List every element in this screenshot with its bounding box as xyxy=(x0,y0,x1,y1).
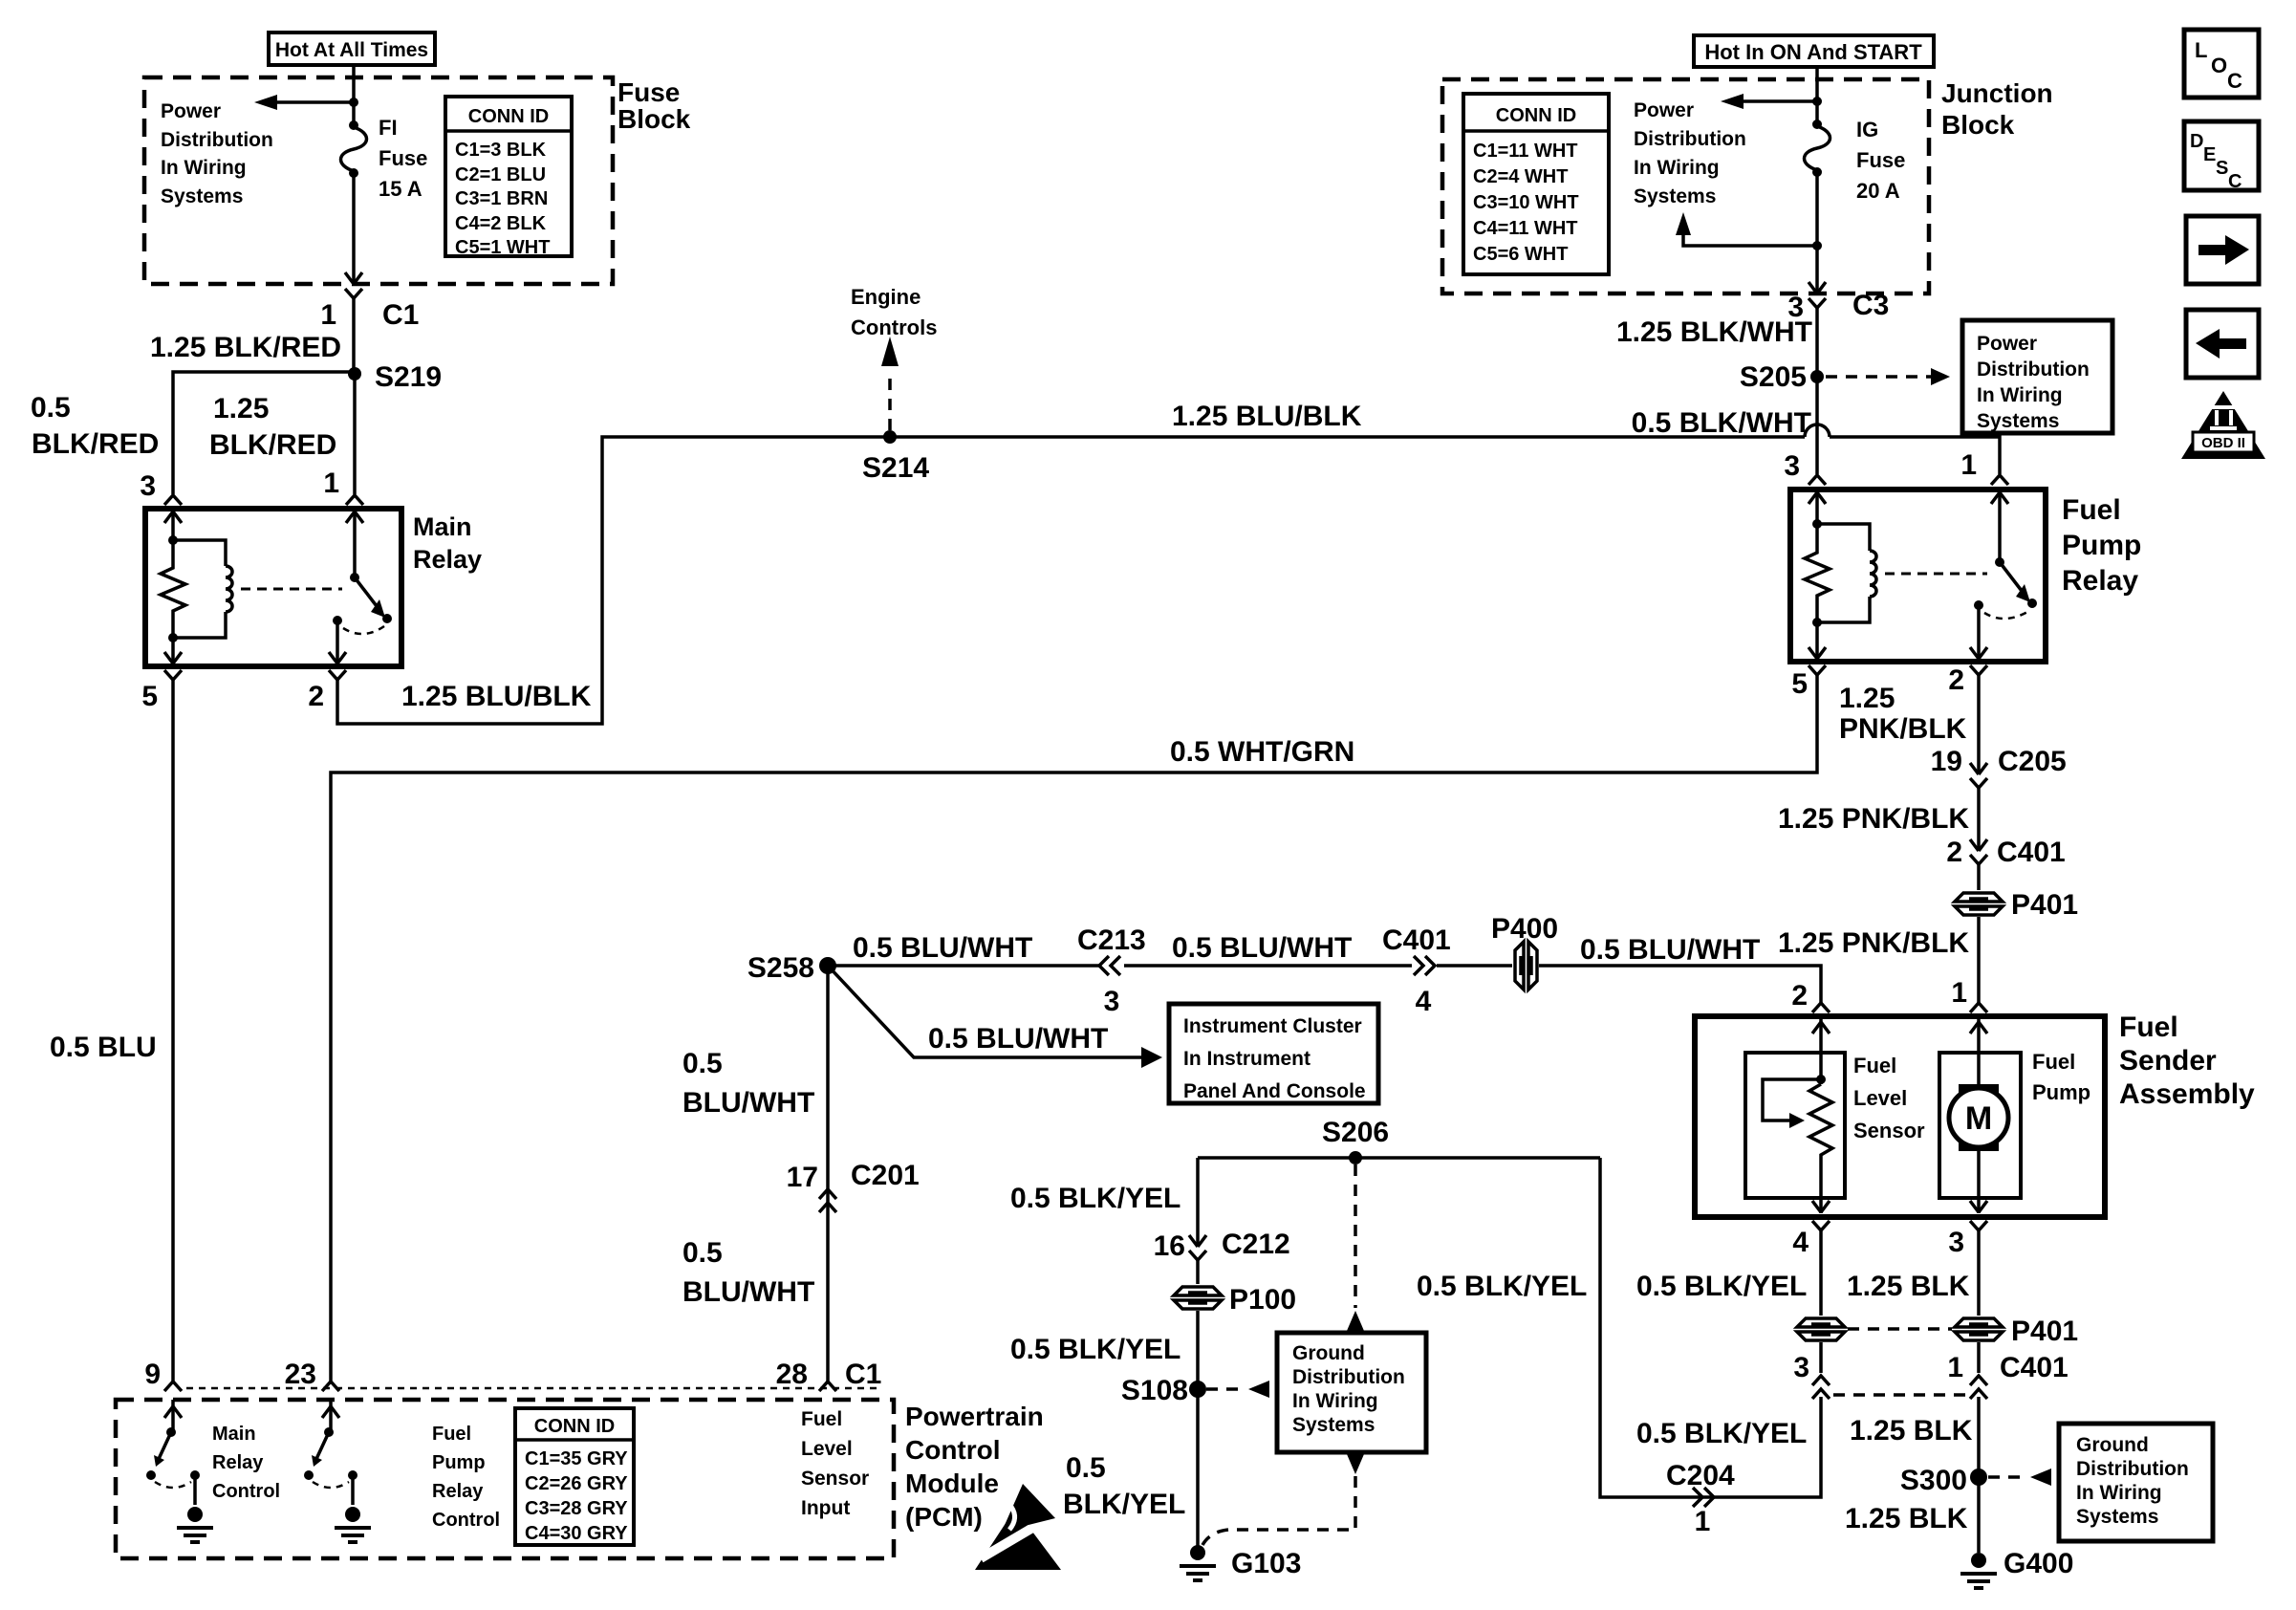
svg-text:Fuel: Fuel xyxy=(2119,1012,2178,1043)
svg-text:20 A: 20 A xyxy=(1856,179,1900,203)
connector C1 pin 1 (fuse block exit) xyxy=(320,272,419,331)
svg-text:28: 28 xyxy=(776,1359,808,1390)
svg-text:Distribution: Distribution xyxy=(161,129,273,151)
fuel sender assembly label xyxy=(2119,1012,2255,1110)
fuse IG 20 A xyxy=(1805,118,1906,203)
svg-text:Distribution: Distribution xyxy=(2076,1458,2189,1480)
svg-text:C401: C401 xyxy=(2000,1352,2069,1383)
node S214 xyxy=(862,430,929,484)
svg-text:0.5 BLK/YEL: 0.5 BLK/YEL xyxy=(1636,1418,1807,1449)
svg-text:Systems: Systems xyxy=(1634,185,1716,207)
svg-text:(PCM): (PCM) xyxy=(905,1502,983,1532)
legend DESC box xyxy=(2184,121,2259,192)
PCM label xyxy=(905,1402,1044,1532)
fuel pump relay coil xyxy=(1817,524,1876,622)
wire xyxy=(352,65,356,124)
svg-text:BLK/RED: BLK/RED xyxy=(209,429,336,461)
svg-text:1.25 BLK: 1.25 BLK xyxy=(1850,1415,1973,1447)
svg-text:0.5 BLK/YEL: 0.5 BLK/YEL xyxy=(1010,1334,1180,1365)
svg-text:In Instrument: In Instrument xyxy=(1183,1048,1310,1070)
svg-text:C4=11 WHT: C4=11 WHT xyxy=(1473,218,1577,239)
fuel pump relay xyxy=(1790,490,2046,662)
svg-text:C205: C205 xyxy=(1998,746,2067,777)
svg-text:Block: Block xyxy=(617,104,691,134)
svg-text:S258: S258 xyxy=(747,952,814,984)
svg-text:0.5 WHT/GRN: 0.5 WHT/GRN xyxy=(1170,736,1354,768)
main relay pin 2 xyxy=(308,670,346,712)
svg-text:O: O xyxy=(2211,54,2227,77)
svg-text:OBD II: OBD II xyxy=(2201,435,2245,451)
svg-text:G103: G103 xyxy=(1231,1548,1301,1579)
connector C213 pin 3 xyxy=(1077,925,1146,1017)
svg-text:Main: Main xyxy=(212,1424,256,1445)
fuel pump relay resistor xyxy=(1805,524,1830,622)
ESD warning symbol xyxy=(975,1484,1061,1570)
power distribution reference box xyxy=(1962,320,2112,433)
svg-text:Powertrain: Powertrain xyxy=(905,1402,1044,1431)
svg-text:1.25 PNK/BLK: 1.25 PNK/BLK xyxy=(1778,927,1969,959)
fuel level sensor xyxy=(1745,1016,1845,1213)
main relay coil feed (pin 3 internal) xyxy=(164,509,182,545)
pass-through grommet P400 xyxy=(1491,913,1558,991)
svg-text:0.5: 0.5 xyxy=(31,392,71,424)
wire 0.5 BLK/RED (branch to pin 3) xyxy=(31,372,355,494)
svg-text:2: 2 xyxy=(1791,980,1808,1012)
svg-text:D: D xyxy=(2190,131,2203,152)
svg-text:1.25 PNK/BLK: 1.25 PNK/BLK xyxy=(1778,803,1969,835)
svg-text:1.25 BLU/BLK: 1.25 BLU/BLK xyxy=(401,681,592,712)
fuel pump relay switch xyxy=(1970,490,2037,660)
connector C401 pin 2 xyxy=(1946,837,2065,868)
connector C3 pin 3 (junction block exit) xyxy=(1787,282,1889,323)
svg-text:Instrument Cluster: Instrument Cluster xyxy=(1183,1015,1362,1037)
main relay coil bottom node xyxy=(164,633,182,664)
fuel sender pin 4 xyxy=(1792,1221,1830,1258)
svg-text:Ground: Ground xyxy=(1292,1342,1365,1364)
instrument cluster reference box xyxy=(1169,1004,1378,1103)
svg-text:0.5 BLU/WHT: 0.5 BLU/WHT xyxy=(928,1023,1108,1055)
node S258 xyxy=(747,952,836,984)
wire xyxy=(1196,1158,1200,1247)
svg-text:0.5 BLU/WHT: 0.5 BLU/WHT xyxy=(1580,934,1760,966)
svg-text:C212: C212 xyxy=(1222,1229,1290,1260)
fuel pump relay pin 3 xyxy=(1784,450,1826,485)
svg-text:P401: P401 xyxy=(2011,889,2078,921)
svg-text:C3=1 BRN: C3=1 BRN xyxy=(455,188,548,209)
svg-text:L: L xyxy=(2195,38,2207,62)
svg-text:C2=1 BLU: C2=1 BLU xyxy=(455,164,546,185)
svg-text:C4=2 BLK: C4=2 BLK xyxy=(455,213,547,234)
svg-text:C2=4 WHT: C2=4 WHT xyxy=(1473,166,1568,187)
connector table CONN ID (junction block) xyxy=(1463,94,1609,274)
svg-text:Relay: Relay xyxy=(413,545,482,574)
node S300 xyxy=(1900,1465,1987,1496)
wire xyxy=(1196,1260,1200,1382)
svg-text:In Wiring: In Wiring xyxy=(1634,157,1720,179)
wire xyxy=(1437,966,1821,1003)
svg-text:Sensor: Sensor xyxy=(801,1468,869,1490)
svg-text:5: 5 xyxy=(141,681,158,712)
main relay xyxy=(145,509,401,666)
svg-text:BLU/WHT: BLU/WHT xyxy=(682,1087,814,1119)
svg-text:Fuel: Fuel xyxy=(432,1424,471,1445)
svg-text:S205: S205 xyxy=(1740,361,1807,393)
svg-text:P400: P400 xyxy=(1491,913,1558,945)
svg-text:Systems: Systems xyxy=(2076,1506,2158,1528)
connector C401 pin 1 xyxy=(1947,1352,2068,1399)
fuel pump relay coil bottom node xyxy=(1809,618,1826,660)
connector C401 pin 3 xyxy=(1793,1352,1830,1399)
svg-text:Controls: Controls xyxy=(851,315,937,339)
junction block label xyxy=(1941,78,2053,140)
branch to instrument cluster xyxy=(828,966,1162,1068)
svg-text:C3: C3 xyxy=(1852,290,1889,321)
svg-text:1.25: 1.25 xyxy=(213,393,269,424)
node S206 xyxy=(1322,1117,1389,1164)
svg-text:17: 17 xyxy=(787,1162,818,1193)
svg-text:1: 1 xyxy=(323,468,339,499)
junction block (dashed) xyxy=(1442,79,1929,294)
svg-text:0.5 BLU/WHT: 0.5 BLU/WHT xyxy=(853,932,1032,964)
fuel pump relay actuation (dashed) xyxy=(1885,573,1987,576)
svg-text:Level: Level xyxy=(1853,1086,1907,1110)
svg-text:0.5 BLK/YEL: 0.5 BLK/YEL xyxy=(1636,1271,1807,1302)
wire 0.5 BLK/YEL (pin 4) xyxy=(1636,1230,1821,1373)
svg-text:1: 1 xyxy=(1960,449,1977,481)
power distribution note (fuse block) xyxy=(161,100,273,207)
arrow to power distribution xyxy=(254,95,354,110)
branch arrow up (junction block) xyxy=(1676,212,1822,250)
svg-text:C5=1 WHT: C5=1 WHT xyxy=(455,237,550,258)
svg-text:BLK/YEL: BLK/YEL xyxy=(1063,1489,1185,1520)
svg-text:1.25 BLK: 1.25 BLK xyxy=(1845,1503,1968,1534)
svg-text:1.25 BLU/BLK: 1.25 BLU/BLK xyxy=(1172,401,1362,432)
svg-text:G400: G400 xyxy=(2004,1548,2073,1579)
wire 1.25 BLK/RED (to pin 1) xyxy=(209,374,355,494)
svg-text:Fuel: Fuel xyxy=(2032,1050,2075,1074)
svg-text:Block: Block xyxy=(1941,110,2015,140)
svg-text:3: 3 xyxy=(1948,1227,1964,1258)
svg-text:S206: S206 xyxy=(1322,1117,1389,1148)
svg-text:CONN ID: CONN ID xyxy=(468,106,549,127)
powertrain control module (dashed box) xyxy=(116,1400,894,1558)
dashed link C401 halves xyxy=(1833,1393,1967,1397)
node junction feed xyxy=(1812,97,1822,106)
main relay coil xyxy=(173,540,232,638)
connector C401 pin 4 xyxy=(1382,925,1451,1017)
svg-text:In Wiring: In Wiring xyxy=(2076,1482,2162,1504)
svg-text:0.5: 0.5 xyxy=(1066,1452,1106,1484)
svg-text:Fuel: Fuel xyxy=(2062,494,2121,526)
legend right-arrow box xyxy=(2186,216,2259,284)
svg-text:CONN ID: CONN ID xyxy=(534,1416,615,1437)
svg-text:Systems: Systems xyxy=(1292,1414,1375,1436)
fuel sender pin 3 xyxy=(1948,1221,1987,1258)
svg-text:1.25: 1.25 xyxy=(1839,683,1895,714)
svg-text:0.5 BLK/YEL: 0.5 BLK/YEL xyxy=(1010,1183,1180,1214)
pass-through grommet P401 xyxy=(1953,889,2078,921)
svg-text:1.25 BLK: 1.25 BLK xyxy=(1847,1271,1970,1302)
pass-through grommet P100 xyxy=(1172,1284,1296,1316)
wire xyxy=(1815,67,1819,122)
svg-text:C3=28 GRY: C3=28 GRY xyxy=(525,1498,628,1519)
svg-text:C1: C1 xyxy=(382,299,419,331)
fuel sender assembly xyxy=(1695,1016,2105,1217)
fuel pump relay control switch (PCM) xyxy=(304,1400,371,1542)
svg-text:BLU/WHT: BLU/WHT xyxy=(682,1276,814,1308)
legend OBD II symbol xyxy=(2181,391,2265,459)
svg-text:Control: Control xyxy=(212,1481,280,1502)
svg-text:2: 2 xyxy=(1946,837,1962,868)
svg-text:Fuse: Fuse xyxy=(379,146,427,170)
wire 0.5 BLU/WHT xyxy=(1580,934,1760,966)
svg-text:Distribution: Distribution xyxy=(1977,359,2090,381)
svg-text:Fuse: Fuse xyxy=(617,77,680,107)
wire 1.25 PNK/BLK xyxy=(1839,675,1979,774)
svg-text:Module: Module xyxy=(905,1469,999,1498)
connector table CONN ID (fuse block) xyxy=(445,97,572,258)
fuel pump relay coil feed xyxy=(1809,490,1826,529)
svg-text:2: 2 xyxy=(308,681,324,712)
svg-text:3: 3 xyxy=(1104,986,1120,1017)
svg-text:Systems: Systems xyxy=(161,185,243,207)
svg-text:3: 3 xyxy=(140,470,156,502)
svg-text:Hot In ON And START: Hot In ON And START xyxy=(1704,40,1922,64)
svg-text:Control: Control xyxy=(432,1510,500,1531)
main relay actuation (dashed) xyxy=(241,588,342,591)
svg-text:23: 23 xyxy=(285,1359,316,1390)
wire xyxy=(352,173,356,284)
svg-text:Fuse: Fuse xyxy=(1856,148,1905,172)
ground G400 xyxy=(1960,1548,2073,1588)
main relay resistor xyxy=(161,540,185,638)
svg-text:C401: C401 xyxy=(1997,837,2066,868)
pass-through grommet P401 (pin 3) xyxy=(1953,1316,2078,1347)
wire 0.5 BLK/YEL (S206 horizontal) xyxy=(1010,1158,1600,1214)
svg-text:Junction: Junction xyxy=(1941,78,2053,108)
svg-text:C204: C204 xyxy=(1666,1460,1735,1491)
wire 0.5 BLK/YEL (S108 to G103) xyxy=(1063,1389,1198,1551)
fuel pump motor xyxy=(1939,1016,2021,1213)
wire 1.25 BLK (pin 3) xyxy=(1847,1230,1979,1373)
wire 1.25 PNK/BLK xyxy=(1778,927,1969,959)
svg-text:Power: Power xyxy=(161,100,221,122)
svg-text:1: 1 xyxy=(1947,1352,1963,1383)
svg-text:In Wiring: In Wiring xyxy=(1292,1390,1378,1412)
svg-text:Hot At All Times: Hot At All Times xyxy=(275,39,428,61)
wire 1.25 BLU/BLK xyxy=(337,401,2000,724)
svg-text:Main: Main xyxy=(413,512,472,541)
dashed link P401 halves xyxy=(1848,1327,1952,1331)
svg-text:0.5: 0.5 xyxy=(682,1048,723,1079)
connector C212 pin 16 xyxy=(1154,1229,1290,1262)
svg-text:C213: C213 xyxy=(1077,925,1146,956)
svg-text:C: C xyxy=(2228,171,2242,192)
main relay pin 5 xyxy=(141,670,182,712)
svg-text:1.25 BLK/RED: 1.25 BLK/RED xyxy=(150,332,341,363)
svg-text:Pump: Pump xyxy=(2032,1080,2090,1104)
svg-text:1.25 BLK/WHT: 1.25 BLK/WHT xyxy=(1616,316,1812,348)
fuel sender pin 1 xyxy=(1951,977,1987,1012)
svg-text:0.5 BLU: 0.5 BLU xyxy=(50,1032,157,1063)
node fuse feed junction xyxy=(349,98,358,107)
svg-text:In Wiring: In Wiring xyxy=(1977,384,2063,406)
main relay control label xyxy=(212,1424,280,1502)
ground G103 xyxy=(1180,1545,1301,1580)
svg-text:Pump: Pump xyxy=(2062,530,2141,561)
fuel sender pin 2 xyxy=(1791,980,1830,1012)
svg-text:C1=3 BLK: C1=3 BLK xyxy=(455,140,547,161)
svg-text:Input: Input xyxy=(801,1497,850,1519)
svg-text:0.5: 0.5 xyxy=(682,1237,723,1269)
fuse block label xyxy=(617,77,691,134)
svg-text:4: 4 xyxy=(1792,1227,1809,1258)
wire 1.25 BLK/WHT xyxy=(1616,308,1817,377)
wire 0.5 BLK/WHT xyxy=(1632,377,1817,474)
legend left-arrow box xyxy=(2186,310,2259,378)
label Hot In ON And START xyxy=(1694,35,1934,67)
svg-text:Systems: Systems xyxy=(1977,410,2059,432)
node S108 xyxy=(1121,1375,1206,1406)
PCM pin 28 xyxy=(776,1359,882,1391)
fuel pump relay label xyxy=(2062,494,2141,597)
svg-text:Sensor: Sensor xyxy=(1853,1119,1925,1142)
svg-text:Distribution: Distribution xyxy=(1292,1366,1405,1388)
power distribution note (junction block) xyxy=(1634,99,1746,207)
connector C205 pin 19 xyxy=(1931,746,2067,788)
svg-text:S: S xyxy=(2216,158,2228,179)
svg-text:C401: C401 xyxy=(1382,925,1451,956)
svg-text:9: 9 xyxy=(144,1359,161,1390)
svg-text:IG: IG xyxy=(1856,118,1878,141)
fuel pump relay pin 1 xyxy=(1960,449,2008,485)
engine controls reference (dashed arrow) xyxy=(851,285,937,430)
pass-through grommet P401 (pin 4) xyxy=(1795,1316,1847,1342)
svg-text:4: 4 xyxy=(1416,986,1432,1017)
svg-text:3: 3 xyxy=(1793,1352,1809,1383)
wire 0.5 WHT/GRN xyxy=(331,675,1817,1382)
svg-text:15 A: 15 A xyxy=(379,177,422,201)
svg-text:1: 1 xyxy=(320,299,336,331)
fuel pump relay pin 2 xyxy=(1948,664,1987,696)
ground distribution reference box (middle) xyxy=(1277,1333,1426,1452)
dashed link ground distribution box to G103 xyxy=(1202,1454,1364,1545)
node S205 xyxy=(1740,361,1824,393)
svg-text:P100: P100 xyxy=(1229,1284,1296,1316)
svg-text:Fuel: Fuel xyxy=(801,1408,842,1430)
label Hot At All Times xyxy=(269,33,435,65)
wire 1.25 BLK/RED xyxy=(150,298,354,374)
svg-text:C1=11 WHT: C1=11 WHT xyxy=(1473,141,1577,162)
node S219 xyxy=(348,361,442,393)
svg-text:Relay: Relay xyxy=(2062,565,2138,597)
svg-text:FI: FI xyxy=(379,116,398,140)
svg-text:C1=35 GRY: C1=35 GRY xyxy=(525,1448,628,1469)
svg-text:E: E xyxy=(2203,144,2216,165)
wire 0.5 BLU/WHT xyxy=(828,932,1099,966)
main relay pin 3 xyxy=(140,470,182,505)
svg-text:0.5 BLK/YEL: 0.5 BLK/YEL xyxy=(1417,1271,1587,1302)
svg-text:Assembly: Assembly xyxy=(2119,1078,2255,1110)
svg-text:Engine: Engine xyxy=(851,285,921,309)
svg-text:0.5 BLK/WHT: 0.5 BLK/WHT xyxy=(1632,407,1811,439)
svg-text:Ground: Ground xyxy=(2076,1434,2149,1456)
svg-text:1: 1 xyxy=(1695,1506,1711,1537)
ground distribution reference box (bottom right) xyxy=(2059,1424,2213,1541)
legend LOC box xyxy=(2184,30,2259,98)
svg-text:Power: Power xyxy=(1977,333,2037,355)
svg-text:5: 5 xyxy=(1791,668,1808,700)
svg-text:BLK/RED: BLK/RED xyxy=(32,428,159,460)
svg-text:Relay: Relay xyxy=(432,1481,484,1502)
svg-text:C3=10 WHT: C3=10 WHT xyxy=(1473,192,1579,213)
dashed reference arrow to power distribution xyxy=(1826,368,1950,385)
svg-text:Control: Control xyxy=(905,1435,1001,1465)
dashed link S206 to ground distribution box xyxy=(1347,1164,1364,1331)
svg-text:Distribution: Distribution xyxy=(1634,128,1746,150)
PCM pin 9 xyxy=(144,1359,182,1391)
PCM connector line C1 (dashed) xyxy=(186,1387,879,1390)
dashed reference arrow (S300 to ground distribution) xyxy=(1988,1469,2051,1486)
svg-text:Relay: Relay xyxy=(212,1452,264,1473)
svg-text:M: M xyxy=(1965,1100,1992,1137)
svg-text:Power: Power xyxy=(1634,99,1694,121)
svg-text:C4=30 GRY: C4=30 GRY xyxy=(525,1523,628,1544)
svg-text:S214: S214 xyxy=(862,452,929,484)
wire xyxy=(1977,864,1981,1003)
fuse block (dashed) xyxy=(144,77,613,284)
main relay control switch (PCM) xyxy=(146,1400,213,1542)
fuel pump relay pin 5 xyxy=(1791,665,1826,700)
svg-text:C5=6 WHT: C5=6 WHT xyxy=(1473,244,1568,265)
main relay label xyxy=(413,512,482,574)
svg-text:C2=26 GRY: C2=26 GRY xyxy=(525,1473,628,1494)
svg-text:3: 3 xyxy=(1784,450,1800,482)
wire 1.25 BLK (C401 pin1 to S300) xyxy=(1845,1397,1979,1553)
svg-text:1: 1 xyxy=(1951,977,1967,1009)
svg-text:0.5 BLU/WHT: 0.5 BLU/WHT xyxy=(1172,932,1352,964)
svg-text:Pump: Pump xyxy=(432,1452,486,1473)
arrow to power distribution (junction block) xyxy=(1721,94,1817,109)
wire 0.5 BLU/WHT xyxy=(1124,932,1412,966)
fuel level sensor input label (PCM pin 28) xyxy=(801,1408,869,1519)
fuel level sensor label xyxy=(1853,1054,1925,1142)
wire xyxy=(1815,172,1819,294)
svg-text:C201: C201 xyxy=(851,1160,920,1191)
connector C204 pin 1 xyxy=(1666,1460,1735,1537)
svg-text:PNK/BLK: PNK/BLK xyxy=(1839,713,1967,745)
wire 0.5 BLK/YEL (C401 pin3 to S206) xyxy=(1417,1158,1821,1497)
dashed reference arrow (S108 to ground distribution) xyxy=(1206,1381,1269,1398)
PCM pin 23 xyxy=(285,1359,339,1391)
svg-text:P401: P401 xyxy=(2011,1316,2078,1347)
svg-text:Sender: Sender xyxy=(2119,1045,2217,1077)
wire 0.5 BLK/YEL xyxy=(1010,1334,1180,1365)
main relay switch xyxy=(329,509,392,664)
connector table CONN ID (PCM) xyxy=(515,1408,634,1545)
svg-text:CONN ID: CONN ID xyxy=(1496,105,1576,126)
wire 1.25 PNK/BLK xyxy=(1778,788,1979,851)
svg-text:Level: Level xyxy=(801,1438,853,1460)
svg-text:19: 19 xyxy=(1931,746,1962,777)
fuel pump label xyxy=(2032,1050,2090,1104)
svg-text:2: 2 xyxy=(1948,664,1964,696)
svg-text:Panel And Console: Panel And Console xyxy=(1183,1080,1366,1102)
svg-text:16: 16 xyxy=(1154,1230,1185,1262)
svg-text:C: C xyxy=(2227,69,2242,93)
svg-text:S219: S219 xyxy=(375,361,442,393)
svg-text:S300: S300 xyxy=(1900,1465,1967,1496)
